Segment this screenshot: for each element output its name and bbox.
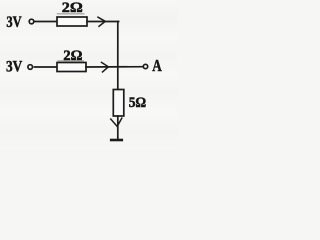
svg-text:2Ω: 2Ω <box>63 48 82 64</box>
svg-text:A: A <box>152 56 162 75</box>
svg-text:2Ω: 2Ω <box>62 0 83 16</box>
svg-text:5Ω: 5Ω <box>129 95 147 111</box>
svg-text:3V: 3V <box>6 58 23 75</box>
svg-text:3V: 3V <box>6 14 22 31</box>
